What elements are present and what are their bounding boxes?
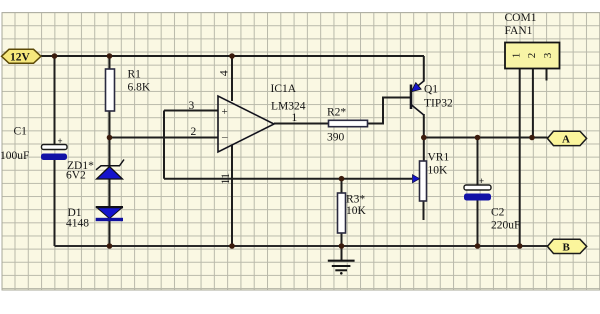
wire pin11 to ground rail [231,145,233,246]
wire R1 top lead [109,56,111,69]
wire node A horizontal [424,137,548,139]
wire D1 to ground rail [109,221,111,247]
capacitor C1 bottom plate [41,154,67,161]
junction dot 12V/pin4 [229,53,235,59]
transistor Q1 emitter arrow [411,83,421,92]
svg-text:1: 1 [511,53,523,59]
svg-text:10K: 10K [346,205,367,217]
svg-text:11: 11 [218,173,232,185]
svg-text:A: A [562,134,570,146]
svg-text:6V2: 6V2 [66,170,86,182]
potentiometer VR1 body [420,161,427,201]
svg-text:VR1: VR1 [428,152,450,164]
wire COM1 pin3 stub [546,69,548,81]
svg-text:6.8K: 6.8K [128,82,151,94]
wire R1 bottom to ZD1 [109,111,111,166]
svg-text:+: + [222,106,228,118]
svg-text:2: 2 [526,53,538,59]
wire pin3 input [164,110,218,112]
connector COM1 FAN1 box [505,43,560,69]
svg-text:100uF: 100uF [0,150,29,162]
svg-text:FAN1: FAN1 [505,25,533,37]
svg-text:Q1: Q1 [424,84,438,96]
svg-text:+: + [479,176,484,186]
junction dot C2 ground rail [475,243,481,249]
svg-text:LM324: LM324 [271,101,306,113]
svg-text:10K: 10K [428,165,449,177]
wire R2 to Q1 base [368,98,411,124]
resistor R2 [329,120,368,126]
junction dot COM1 pin2 node A [529,135,535,141]
svg-text:COM1: COM1 [505,12,537,24]
svg-text:220uF: 220uF [491,220,520,232]
junction dot R1/pin2 [107,135,113,141]
svg-text:C1: C1 [14,126,28,138]
svg-text:3: 3 [542,52,554,58]
junction dot 12V/C1 [52,53,58,59]
svg-text:B: B [563,242,571,254]
svg-text:R2*: R2* [327,107,346,119]
potentiometer VR1 wiper arrow [413,175,420,183]
svg-text:R1: R1 [128,69,142,81]
svg-text:4148: 4148 [66,218,89,230]
wire feedback horizontal to VR1 wiper [164,178,412,180]
svg-text:C2: C2 [491,207,505,219]
resistor R1 [106,69,115,111]
resistor R3 [338,193,346,233]
port B [547,239,586,253]
wire pin2 input [110,137,219,139]
capacitor C1 top plate [42,145,68,150]
svg-text:3: 3 [189,100,195,112]
svg-text:4: 4 [216,70,230,76]
wire Q1 collector down to VR1 [423,114,425,161]
wire op-amp output to R2 [274,123,329,125]
junction dot 12V/R1 [107,53,113,59]
svg-text:1: 1 [292,112,298,124]
junction dot COM1 pin1 ground rail [517,243,523,249]
svg-text:–: – [221,131,228,143]
ground symbol [328,261,355,275]
wire R3 top lead [341,179,343,193]
wire feedback vertical [163,111,165,179]
wire C2 top lead [477,138,479,186]
wire R3 bottom lead [341,233,343,246]
junction dot D1 ground rail [107,243,113,249]
wire 12V rail [41,55,424,57]
svg-text:IC1A: IC1A [271,83,297,95]
wire COM1 pin2 to node A [532,69,534,138]
wire ground rail [55,245,548,247]
op-amp U1 IC1A triangle [218,96,274,152]
capacitor C2 top plate [464,185,491,190]
wire ground stub [341,246,343,260]
zener diode ZD1 [96,160,124,180]
svg-text:+: + [58,136,63,146]
wire C1 bottom lead [54,160,56,246]
wire ZD1 to D1 [109,179,111,207]
transistor Q1 base bar [410,85,413,110]
wire Q1 emitter top [423,56,425,82]
svg-text:2: 2 [191,126,197,138]
wire COM1 pin1 to ground rail [519,69,521,247]
svg-text:TIP32: TIP32 [424,98,453,110]
junction dot C2 node A [475,135,481,141]
transistor Q1 emitter diagonal [411,81,424,92]
junction dot R3 ground rail [339,243,345,249]
wire C2 bottom lead [477,201,479,247]
svg-text:12V: 12V [10,52,31,64]
diode D1 [96,207,123,221]
wire C1 top lead [54,56,56,145]
wire pin4 to rail [231,56,233,101]
junction dot R3 top [339,176,345,182]
junction dot pin11 ground rail [229,243,235,249]
capacitor C2 bottom plate [464,194,491,201]
junction dot Q1 collector node A [421,135,427,141]
wire VR1 bottom stub [423,201,425,220]
port A [547,131,586,145]
transistor Q1 collector diagonal [411,105,424,116]
power port 12V [2,49,42,63]
svg-text:390: 390 [327,132,345,144]
svg-text:R3*: R3* [346,194,365,206]
